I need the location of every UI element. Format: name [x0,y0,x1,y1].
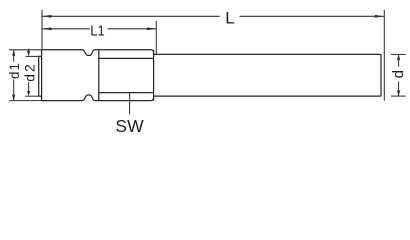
arrowhead d2 bottom (pointing down onto tick) [27,91,30,96]
hex section left edge [98,50,100,101]
SW leader line [129,93,131,115]
collar bottom edge with neck groove into ring [42,95,99,101]
extension line left (L / L1 datum) [41,10,43,50]
arrowhead d2 top (pointing down onto tick) [27,51,30,57]
shank left face (small pilot step) [38,56,40,96]
svg-text:SW: SW [115,116,144,136]
svg-text:d1: d1 [7,62,22,79]
d extension tick bottom [391,95,406,97]
pilot step bottom edge [39,95,42,97]
d1 bottom extension tick [9,100,43,102]
arrowhead d top [397,54,400,60]
d2 dimension line stub [28,49,30,92]
hex section right edge [153,50,155,101]
svg-text:d: d [390,70,407,78]
svg-text:L1: L1 [90,23,105,40]
d dimension line [398,54,400,96]
d1 top extension tick [9,49,41,51]
shank bottom edge [154,95,381,97]
extension line L1 right (hex end) [155,21,157,54]
extension line right end (L) [383,10,385,101]
dimension line L [42,15,384,17]
shank right end face [380,54,382,96]
hex section bottom edge [99,98,154,101]
hex flat upper boundary line [99,57,154,59]
arrowhead L right [375,15,385,18]
svg-text:d2: d2 [22,62,37,81]
collar front face [41,50,43,101]
pilot step top edge [39,55,42,57]
svg-text:L: L [225,9,234,28]
arrowhead d1 bottom [12,95,15,101]
hex flat lower boundary line [99,92,154,94]
arrowhead d1 top [12,50,15,56]
arrowhead L1 right [147,27,157,30]
d2 top extension tick [25,55,40,57]
arrowhead L left [42,15,52,18]
dimension line L1 [42,28,156,30]
d1 dimension line [13,50,15,101]
arrowhead d bottom [397,91,400,97]
collar top edge with neck groove into ring [42,50,99,56]
hex section top edge [99,50,154,53]
d extension tick top [391,53,406,55]
arrowhead L1 left [42,27,52,30]
d2 bottom extension tick [25,95,39,97]
shank top edge [154,53,381,55]
